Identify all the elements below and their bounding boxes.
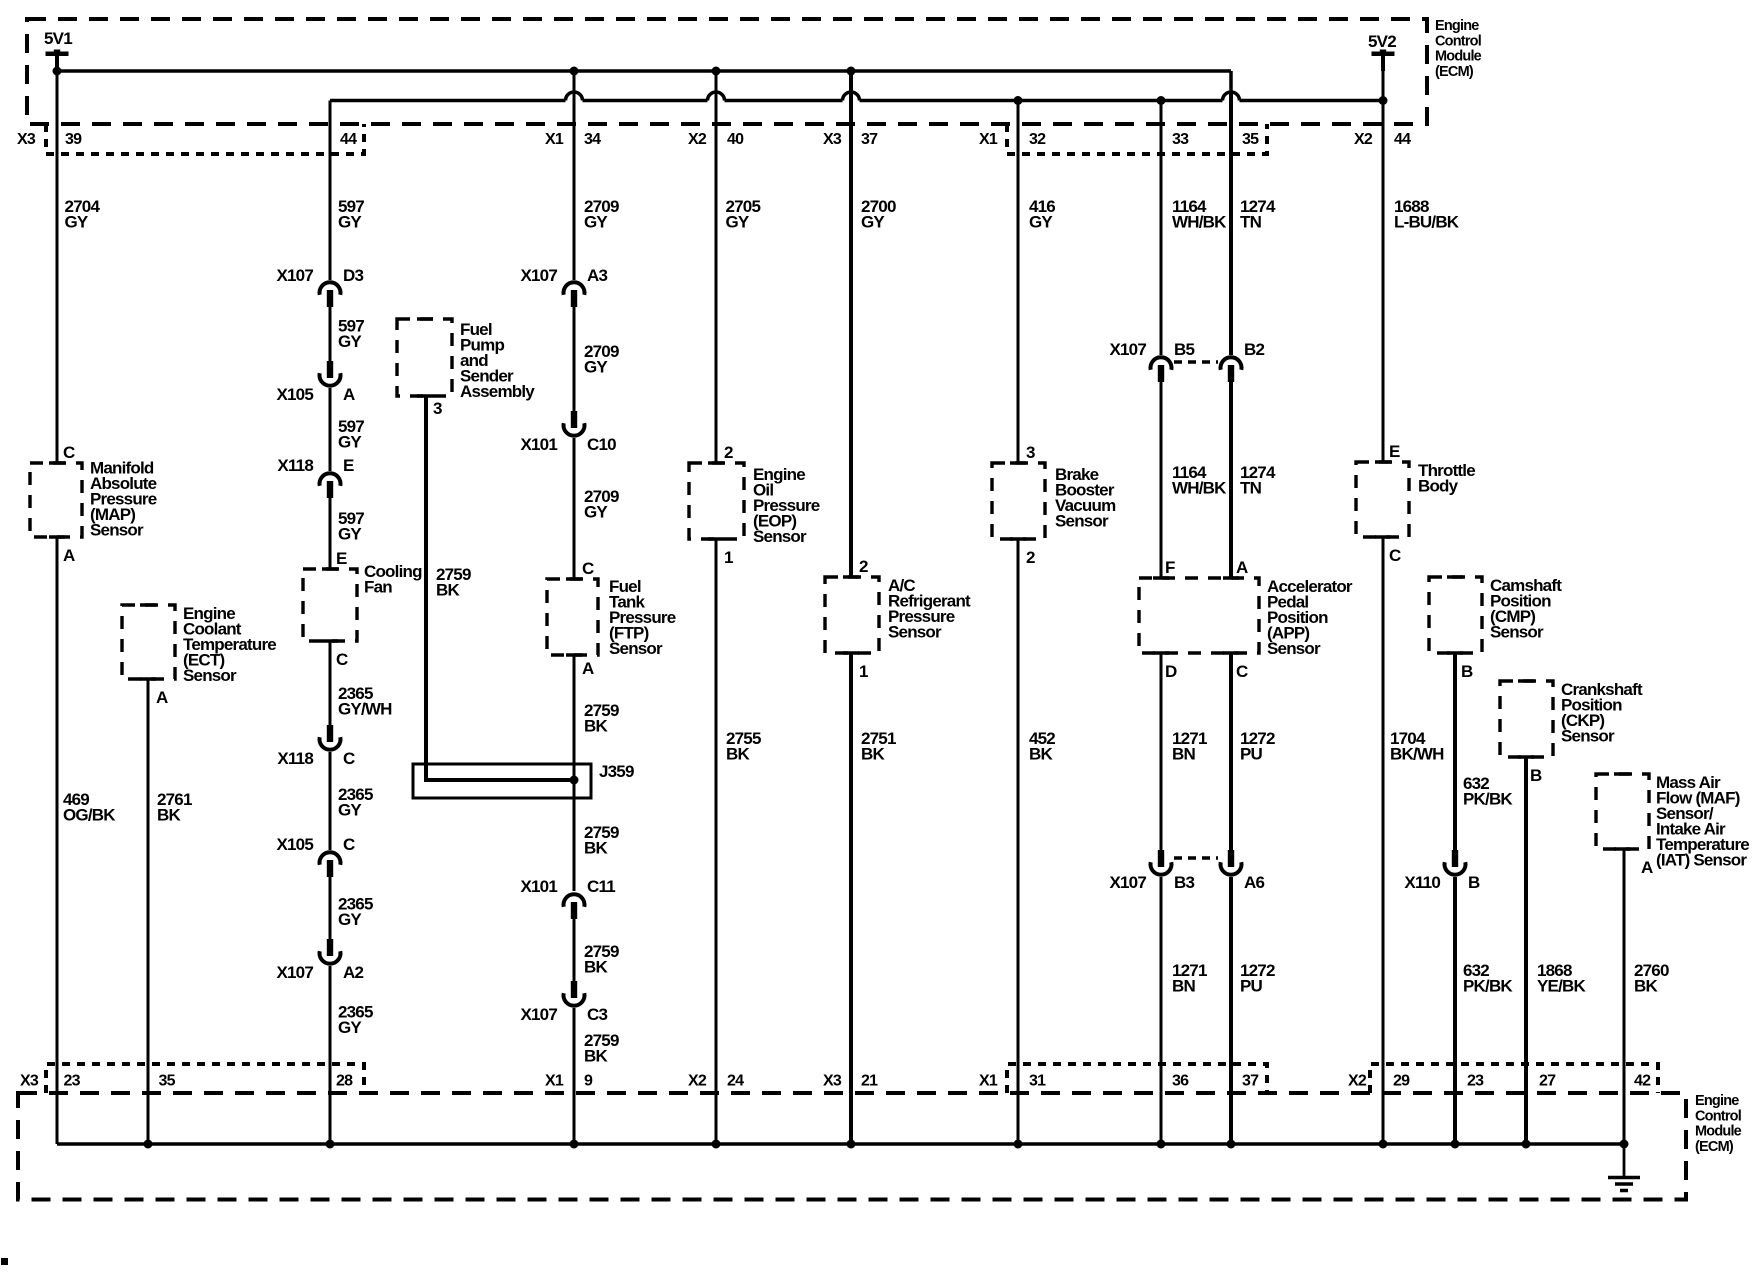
EOP sensor box [689, 463, 744, 539]
label 2751 BK [861, 729, 896, 764]
svg-text:35: 35 [159, 1073, 176, 1090]
svg-text:A: A [582, 659, 594, 678]
crankshaft position sensor box [1500, 681, 1553, 757]
svg-text:X3: X3 [823, 131, 842, 148]
svg-text:BK: BK [584, 958, 608, 977]
connector group box pins 31-37 [1007, 1064, 1267, 1093]
wire 1272 PU a [1229, 653, 1233, 851]
svg-text:23: 23 [1467, 1073, 1484, 1090]
inline connector X107 A2 [276, 939, 363, 982]
connector link B3-A6 [1174, 856, 1218, 860]
FTP sensor box [547, 579, 598, 655]
svg-text:BK: BK [584, 839, 608, 858]
svg-text:X2: X2 [688, 131, 707, 148]
svg-text:B5: B5 [1174, 340, 1194, 359]
label 1274 TN a [1240, 197, 1276, 232]
fuel pump and sender assembly box [397, 319, 452, 396]
wire 2705 GY pin40 down [715, 71, 718, 463]
svg-text:GY: GY [338, 525, 362, 544]
wire 452 BK [1017, 539, 1020, 1144]
svg-text:44: 44 [1394, 131, 1411, 148]
EOP sensor label [753, 465, 820, 546]
wire 1271 BN b [1160, 877, 1163, 1144]
svg-text:Sensor: Sensor [90, 521, 144, 540]
connector group box pins 39-44 [46, 124, 364, 154]
inline connector X107 B2 [1221, 340, 1265, 382]
svg-text:GY: GY [338, 332, 362, 351]
svg-text:BK: BK [584, 717, 608, 736]
wire 2755 BK [715, 539, 718, 1144]
svg-text:BK: BK [1029, 745, 1053, 764]
label 452 BK [1029, 729, 1055, 764]
wire 2760 BK [1623, 849, 1626, 1144]
wire 1274 TN b [1229, 382, 1233, 578]
ECM pin X1-9 [545, 1073, 593, 1090]
svg-text:A3: A3 [587, 266, 607, 285]
label 2700 GY [861, 197, 896, 232]
5V1 power feed [44, 29, 72, 71]
svg-text:X101: X101 [520, 877, 557, 896]
EOP pin 2 [724, 443, 733, 462]
inline connector X107 B5 [1109, 340, 1194, 382]
bus dot x1018 [1014, 1140, 1023, 1149]
svg-text:X1: X1 [545, 131, 564, 148]
svg-text:44: 44 [340, 131, 357, 148]
svg-text:23: 23 [64, 1073, 81, 1090]
ECM pin 35 [1242, 131, 1259, 148]
svg-text:X118: X118 [277, 749, 313, 768]
wire 1704 BK/WH [1382, 537, 1385, 1144]
label 2755 BK [726, 729, 761, 764]
ECM top label [1435, 18, 1482, 80]
svg-text:L-BU/BK: L-BU/BK [1394, 213, 1460, 232]
svg-text:GY: GY [584, 503, 608, 522]
connector group box pins 32-35 [1007, 124, 1267, 154]
wire 597 GY d [329, 498, 332, 569]
brake booster vacuum sensor box [992, 463, 1045, 539]
svg-text:E: E [1389, 442, 1400, 461]
svg-text:Fan: Fan [364, 578, 392, 597]
wire 2365 GY g [329, 966, 332, 1144]
splice J359 label [599, 762, 634, 781]
label 469 OG/BK [63, 790, 116, 825]
throttle body pin C [1389, 546, 1401, 565]
svg-text:X2: X2 [1348, 1073, 1367, 1090]
svg-text:X107: X107 [276, 963, 313, 982]
fuel pump pin 3 [433, 399, 442, 418]
svg-text:Control: Control [1695, 1108, 1741, 1124]
svg-text:J359: J359 [599, 762, 634, 781]
svg-text:X3: X3 [20, 1073, 39, 1090]
svg-text:(IAT) Sensor: (IAT) Sensor [1656, 851, 1747, 870]
AC refrigerant pressure label [888, 576, 971, 642]
wire hop x716 [708, 92, 725, 101]
svg-text:GY: GY [338, 433, 362, 452]
label 2365 GY f [338, 895, 373, 930]
AC pressure pin 1 [859, 662, 868, 681]
label 1271 BN a [1172, 729, 1207, 764]
junction dot line1 x57 [53, 67, 62, 76]
wire 1164 WH/BK b [1160, 382, 1163, 578]
svg-text:A: A [156, 688, 168, 707]
svg-text:BK: BK [584, 1047, 608, 1066]
svg-text:C: C [343, 749, 355, 768]
svg-text:Assembly: Assembly [460, 382, 535, 401]
svg-text:C3: C3 [587, 1005, 607, 1024]
inline connector X101 C10 [520, 411, 616, 454]
throttle body pin E [1389, 442, 1400, 461]
svg-text:BK: BK [436, 581, 460, 600]
ECM pin X3-39 [17, 131, 82, 148]
svg-text:TN: TN [1240, 213, 1262, 232]
svg-text:BK: BK [726, 745, 750, 764]
FTP pin A [582, 659, 594, 678]
inline connector X110 B [1404, 850, 1480, 892]
ECM pin 27 [1539, 1073, 1556, 1090]
svg-text:C11: C11 [587, 877, 615, 896]
svg-text:PU: PU [1240, 977, 1263, 996]
svg-text:GY: GY [584, 213, 608, 232]
junction dot line1 x574 [570, 67, 579, 76]
svg-text:X118: X118 [277, 456, 313, 475]
svg-text:Sensor: Sensor [753, 527, 807, 546]
APP pin F [1165, 558, 1175, 577]
inline connector X118 C [277, 725, 355, 768]
ECM pin X2-40 [688, 131, 744, 148]
label 2759 BK c [584, 942, 619, 977]
label 597 GY a [338, 197, 364, 232]
connector group box pins 23-28 [46, 1064, 364, 1093]
svg-text:B2: B2 [1244, 340, 1264, 359]
ECM pin 44 (X3) [340, 131, 357, 148]
inline connector X101 C11 [520, 877, 615, 919]
svg-text:B: B [1530, 766, 1542, 785]
connector link B5-B2 [1174, 360, 1218, 364]
svg-text:A: A [1641, 858, 1653, 877]
label 2759 BK a [584, 701, 619, 736]
junction dot line1 x716 [712, 67, 721, 76]
CMP sensor label [1490, 576, 1562, 642]
svg-text:YE/BK: YE/BK [1537, 977, 1586, 996]
svg-text:B: B [1461, 662, 1473, 681]
wire 1272 PU b [1229, 877, 1233, 1144]
svg-text:Body: Body [1418, 477, 1459, 496]
FTP sensor label [609, 577, 676, 658]
APP pin A [1236, 558, 1248, 577]
label 2709 GY b [584, 342, 619, 377]
svg-text:BK/WH: BK/WH [1390, 745, 1444, 764]
bus dot x330 [326, 1140, 335, 1149]
FTP pin C [582, 559, 594, 578]
svg-text:Sensor: Sensor [1055, 512, 1109, 531]
label 2759 BK pump [436, 565, 471, 600]
svg-text:A6: A6 [1244, 873, 1264, 892]
inline connector X107 D3 [276, 266, 363, 307]
wire 1274 TN pin35 down [1229, 92, 1233, 355]
ECM pin X3-21 [823, 1073, 878, 1090]
bus dot x716 [712, 1140, 721, 1149]
ECM bottom label [1695, 1093, 1742, 1155]
ECM pin X2-24 [688, 1073, 744, 1090]
label 2760 BK [1634, 961, 1669, 996]
svg-text:Sensor: Sensor [888, 623, 942, 642]
ECM pin X2-44 [1354, 131, 1411, 148]
cooling fan box [303, 569, 357, 641]
junction dot J359 [570, 776, 579, 785]
svg-text:GY: GY [726, 213, 750, 232]
svg-text:39: 39 [65, 131, 82, 148]
svg-text:X1: X1 [979, 131, 998, 148]
wire 2365 GY f [329, 877, 332, 939]
svg-text:BK: BK [1634, 977, 1658, 996]
wire 1868 YE/BK [1524, 757, 1528, 1144]
label 2365 GY g [338, 1003, 373, 1038]
label 1164 WH/BK a [1172, 197, 1227, 232]
bus dot x1624 [1620, 1140, 1629, 1149]
svg-text:5V2: 5V2 [1368, 32, 1396, 51]
svg-text:A2: A2 [343, 963, 363, 982]
svg-text:34: 34 [584, 131, 601, 148]
svg-text:A: A [343, 385, 355, 404]
5V2 power feed [1368, 32, 1396, 71]
svg-text:D3: D3 [343, 266, 363, 285]
svg-text:C: C [1389, 546, 1401, 565]
label 597 GY d [338, 509, 364, 544]
svg-text:37: 37 [861, 131, 878, 148]
splice J359 box [413, 764, 591, 798]
svg-text:X110: X110 [1404, 873, 1440, 892]
svg-text:GY: GY [65, 213, 89, 232]
svg-text:X107: X107 [520, 1005, 557, 1024]
ECT pin A [156, 688, 168, 707]
CKP sensor label [1561, 680, 1643, 746]
bus dot x1161 [1157, 1140, 1166, 1149]
svg-text:F: F [1165, 558, 1175, 577]
svg-text:Engine: Engine [1695, 1093, 1739, 1109]
svg-text:GY/WH: GY/WH [338, 700, 392, 719]
svg-text:A: A [63, 546, 75, 565]
wire 2709 GY pin34 down [573, 71, 576, 280]
svg-text:28: 28 [336, 1073, 353, 1090]
label 2365 GY e [338, 785, 373, 820]
label 2709 GY c [584, 487, 619, 522]
wire 632 PK/BK b [1453, 877, 1457, 1144]
svg-text:X101: X101 [520, 435, 557, 454]
ECT sensor box [122, 605, 175, 679]
junction dot line2 x1161 [1157, 96, 1166, 105]
svg-text:B: B [1468, 873, 1480, 892]
svg-text:29: 29 [1393, 1073, 1410, 1090]
bus dot x851 [847, 1140, 856, 1149]
inline connector X107 A3 [520, 266, 607, 307]
page dot bottom-left [1, 1258, 8, 1265]
CKP pin B [1530, 766, 1542, 785]
ECM pin X3-37 [823, 131, 878, 148]
5V2 bus line2 [330, 99, 1383, 103]
ECM pin 42 [1634, 1073, 1651, 1090]
wire 1271 BN a [1160, 653, 1163, 851]
accelerator pedal position sensor box [1139, 578, 1259, 653]
svg-text:9: 9 [584, 1073, 593, 1090]
ECM pin X1-32 [979, 131, 1046, 148]
label 2759 BK d [584, 1031, 619, 1066]
wire 597 GY b [329, 307, 332, 361]
svg-text:BK: BK [861, 745, 885, 764]
svg-text:A: A [1236, 558, 1248, 577]
label 416 GY [1029, 197, 1055, 232]
svg-text:42: 42 [1634, 1073, 1651, 1090]
wire 2759 BK a [573, 655, 576, 891]
cooling fan pin E [336, 549, 347, 568]
APP sensor label [1267, 577, 1353, 658]
ECT sensor label [183, 604, 276, 685]
wire 2704 GY pin39 to MAP [56, 71, 59, 463]
APP pin D [1165, 662, 1177, 681]
MAF pin A [1641, 858, 1653, 877]
svg-text:GY: GY [338, 910, 362, 929]
wire 416 GY pin32 down [1017, 101, 1020, 464]
bus dot x148 [144, 1140, 153, 1149]
inline connector X105 A [276, 361, 355, 404]
svg-text:X107: X107 [1109, 873, 1146, 892]
ECM pin X2-29 [1348, 1073, 1410, 1090]
svg-text:5V1: 5V1 [44, 29, 72, 48]
MAF IAT sensor label [1656, 773, 1749, 870]
wire 1688 L-BU/BK pin44 down [1382, 56, 1385, 462]
APP pin C [1236, 662, 1248, 681]
svg-text:32: 32 [1029, 131, 1046, 148]
wire 2759 BK d [573, 1008, 576, 1144]
svg-text:X2: X2 [1354, 131, 1373, 148]
svg-text:X3: X3 [17, 131, 36, 148]
wire 2759 BK fuel pump to J359 [426, 396, 574, 780]
label 2759 BK b [584, 823, 619, 858]
bus dot x1526 [1522, 1140, 1531, 1149]
bus dot x1455 [1451, 1140, 1460, 1149]
svg-text:27: 27 [1539, 1073, 1556, 1090]
ECM pin X1-34 [545, 131, 601, 148]
label 2705 GY [726, 197, 761, 232]
inline connector X105 C [276, 835, 355, 877]
svg-text:X2: X2 [688, 1073, 707, 1090]
svg-text:21: 21 [861, 1073, 878, 1090]
ECM pin 37b [1242, 1073, 1259, 1090]
svg-text:BK: BK [157, 806, 181, 825]
svg-text:PU: PU [1240, 745, 1263, 764]
label 2709 GY a [584, 197, 619, 232]
wire 597 GY pin44 down [329, 101, 332, 281]
svg-text:GY: GY [338, 1018, 362, 1037]
label 1271 BN b [1172, 961, 1207, 996]
inline connector X118 E [277, 456, 354, 498]
wire 2761 BK ECT to pin35 [147, 679, 150, 1144]
mass air flow / IAT sensor box [1596, 774, 1649, 849]
svg-text:E: E [343, 456, 354, 475]
brake booster pin 3 [1026, 443, 1035, 462]
wire 632 PK/BK a [1453, 653, 1457, 851]
svg-text:GY: GY [338, 213, 362, 232]
svg-text:X1: X1 [545, 1073, 564, 1090]
wire hop x574 [566, 92, 583, 101]
wire 2709 GY c [573, 438, 576, 579]
fuel pump label [460, 320, 535, 401]
MAP sensor label [90, 459, 157, 540]
wire 2700 GY pin37 down [849, 71, 853, 577]
svg-text:X107: X107 [1109, 340, 1146, 359]
ground symbol [1608, 1144, 1640, 1191]
svg-text:PK/BK: PK/BK [1463, 977, 1513, 996]
svg-text:2: 2 [859, 557, 868, 576]
camshaft position sensor box [1429, 577, 1482, 653]
svg-text:Control: Control [1435, 33, 1481, 49]
brake booster vacuum label [1055, 465, 1116, 531]
bus dot x574 [570, 1140, 579, 1149]
wire 2751 BK [849, 653, 853, 1144]
ECM pin X1-31 [979, 1073, 1046, 1090]
svg-text:X105: X105 [276, 385, 313, 404]
svg-text:X107: X107 [276, 266, 313, 285]
svg-text:Module: Module [1435, 49, 1482, 65]
wire 2709 GY b [573, 307, 576, 411]
label 632 PK/BK a [1463, 774, 1513, 809]
svg-text:D: D [1165, 662, 1177, 681]
inline connector X107 B3 [1109, 850, 1194, 892]
svg-text:Sensor: Sensor [1490, 623, 1544, 642]
svg-text:C: C [343, 835, 355, 854]
svg-text:C: C [336, 650, 348, 669]
wire 469 OG/BK MAP to pin23 [56, 537, 59, 1144]
svg-text:X1: X1 [979, 1073, 998, 1090]
label 1868 YE/BK [1537, 961, 1586, 996]
svg-text:Sensor: Sensor [1267, 639, 1321, 658]
wire hop x851 [843, 92, 860, 101]
label 2365 GY/WH [338, 684, 392, 719]
cooling fan label [364, 562, 422, 597]
svg-text:PK/BK: PK/BK [1463, 790, 1513, 809]
label 2761 BK [157, 790, 192, 825]
CMP pin B [1461, 662, 1473, 681]
ECM top dashed box [27, 19, 1427, 124]
bus dot x1383 [1379, 1140, 1388, 1149]
svg-text:GY: GY [1029, 213, 1053, 232]
svg-text:31: 31 [1029, 1073, 1046, 1090]
ECM pin X3-23 [20, 1073, 81, 1090]
svg-text:GY: GY [861, 213, 885, 232]
ECM pin 36 [1172, 1073, 1189, 1090]
ECM pin 33 [1172, 131, 1189, 148]
svg-text:BN: BN [1172, 745, 1195, 764]
svg-text:Module: Module [1695, 1124, 1742, 1140]
junction dot line2 x1018 [1014, 96, 1023, 105]
svg-text:Sensor: Sensor [183, 666, 237, 685]
MAP sensor box [30, 463, 82, 537]
svg-text:1: 1 [859, 662, 868, 681]
svg-text:Sensor: Sensor [1561, 727, 1615, 746]
svg-text:X3: X3 [823, 1073, 842, 1090]
inline connector X107 C3 [520, 981, 607, 1024]
label 597 GY c [338, 417, 364, 452]
svg-text:(ECM): (ECM) [1435, 64, 1474, 80]
svg-text:Sensor: Sensor [609, 639, 663, 658]
svg-text:GY: GY [584, 358, 608, 377]
svg-text:40: 40 [727, 131, 744, 148]
ECM bottom dashed box [18, 1093, 1686, 1200]
svg-text:C: C [1236, 662, 1248, 681]
svg-text:24: 24 [727, 1073, 744, 1090]
label 1272 PU b [1240, 961, 1275, 996]
brake booster pin 2 [1026, 548, 1035, 567]
svg-text:C10: C10 [587, 435, 616, 454]
